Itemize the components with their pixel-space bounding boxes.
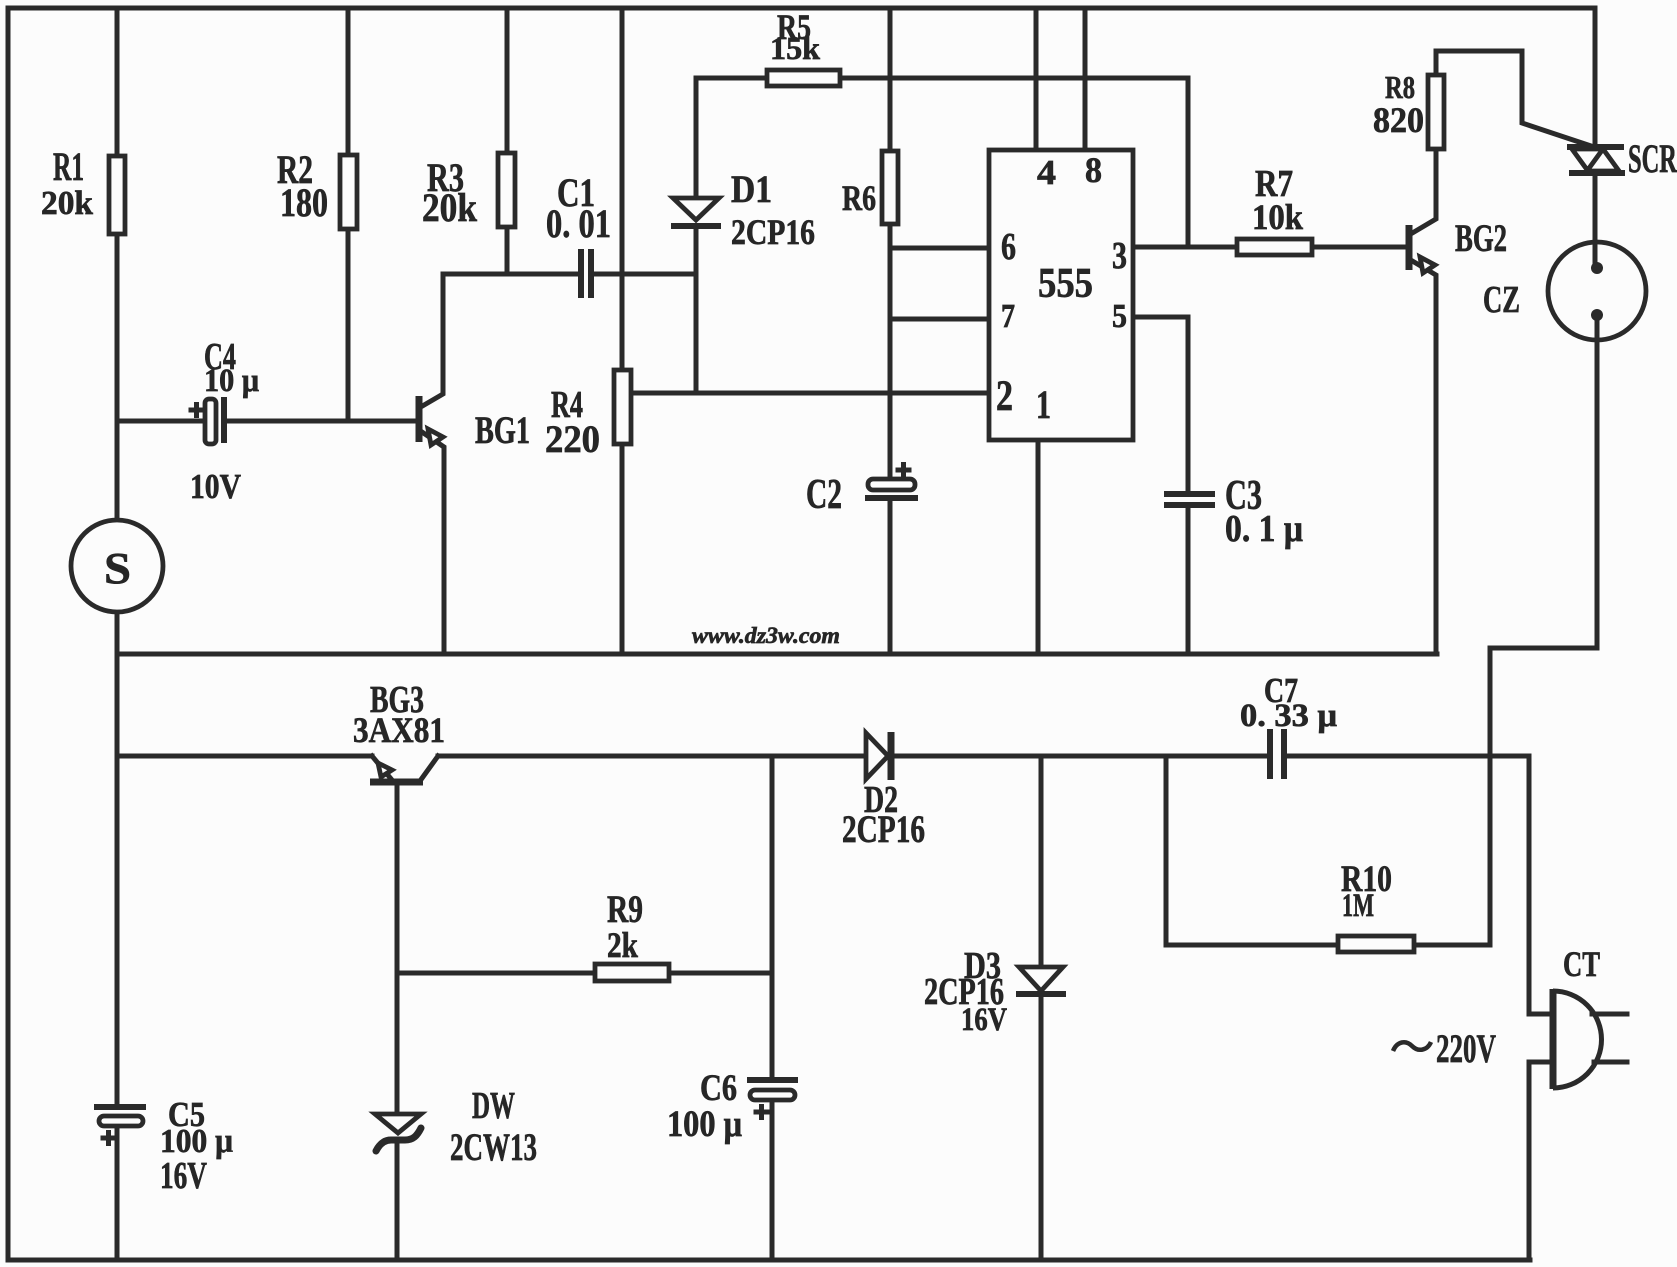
svg-text:0. 33 μ: 0. 33 μ — [1240, 698, 1337, 734]
svg-text:0. 1 μ: 0. 1 μ — [1225, 508, 1303, 550]
svg-text:4: 4 — [1037, 153, 1056, 192]
svg-text:8: 8 — [1085, 150, 1102, 190]
svg-text:3: 3 — [1112, 235, 1127, 277]
svg-text:16V: 16V — [160, 1155, 207, 1197]
svg-text:www.dz3w.com: www.dz3w.com — [692, 623, 840, 648]
svg-text:D1: D1 — [731, 168, 772, 211]
svg-text:5: 5 — [1112, 298, 1127, 335]
svg-text:10 μ: 10 μ — [204, 363, 259, 399]
svg-text:BG2: BG2 — [1455, 217, 1507, 260]
svg-text:3AX81: 3AX81 — [353, 710, 445, 750]
svg-text:2CP16: 2CP16 — [842, 808, 925, 851]
svg-text:S: S — [104, 544, 131, 593]
svg-text:2k: 2k — [607, 925, 638, 965]
svg-text:220V: 220V — [1436, 1026, 1496, 1071]
svg-text:555: 555 — [1038, 261, 1093, 307]
svg-text:2CW13: 2CW13 — [450, 1126, 537, 1169]
svg-text:C2: C2 — [806, 472, 842, 518]
svg-text:100 μ: 100 μ — [667, 1104, 742, 1145]
svg-text:20k: 20k — [41, 185, 93, 222]
svg-text:DW: DW — [472, 1085, 515, 1127]
svg-text:6: 6 — [1001, 226, 1016, 268]
svg-text:0. 01: 0. 01 — [546, 201, 611, 246]
svg-text:16V: 16V — [961, 1002, 1007, 1038]
svg-text:CZ: CZ — [1483, 279, 1520, 321]
svg-text:820: 820 — [1373, 100, 1424, 140]
svg-text:10k: 10k — [1252, 197, 1303, 237]
svg-text:R1: R1 — [53, 144, 84, 189]
svg-text:1M: 1M — [1342, 888, 1374, 924]
svg-text:SCR: SCR — [1628, 136, 1677, 181]
svg-text:220: 220 — [545, 418, 600, 461]
svg-text:7: 7 — [1001, 298, 1015, 335]
svg-text:1: 1 — [1036, 382, 1051, 427]
svg-text:20k: 20k — [422, 185, 478, 230]
svg-text:180: 180 — [280, 180, 328, 225]
svg-text:R6: R6 — [842, 178, 876, 218]
svg-text:CT: CT — [1563, 944, 1600, 984]
svg-text:15k: 15k — [770, 30, 820, 66]
svg-text:C6: C6 — [700, 1068, 737, 1109]
svg-text:BG1: BG1 — [475, 409, 530, 452]
svg-text:2CP16: 2CP16 — [731, 212, 815, 252]
svg-text:10V: 10V — [190, 467, 241, 506]
svg-text:2: 2 — [996, 373, 1013, 420]
